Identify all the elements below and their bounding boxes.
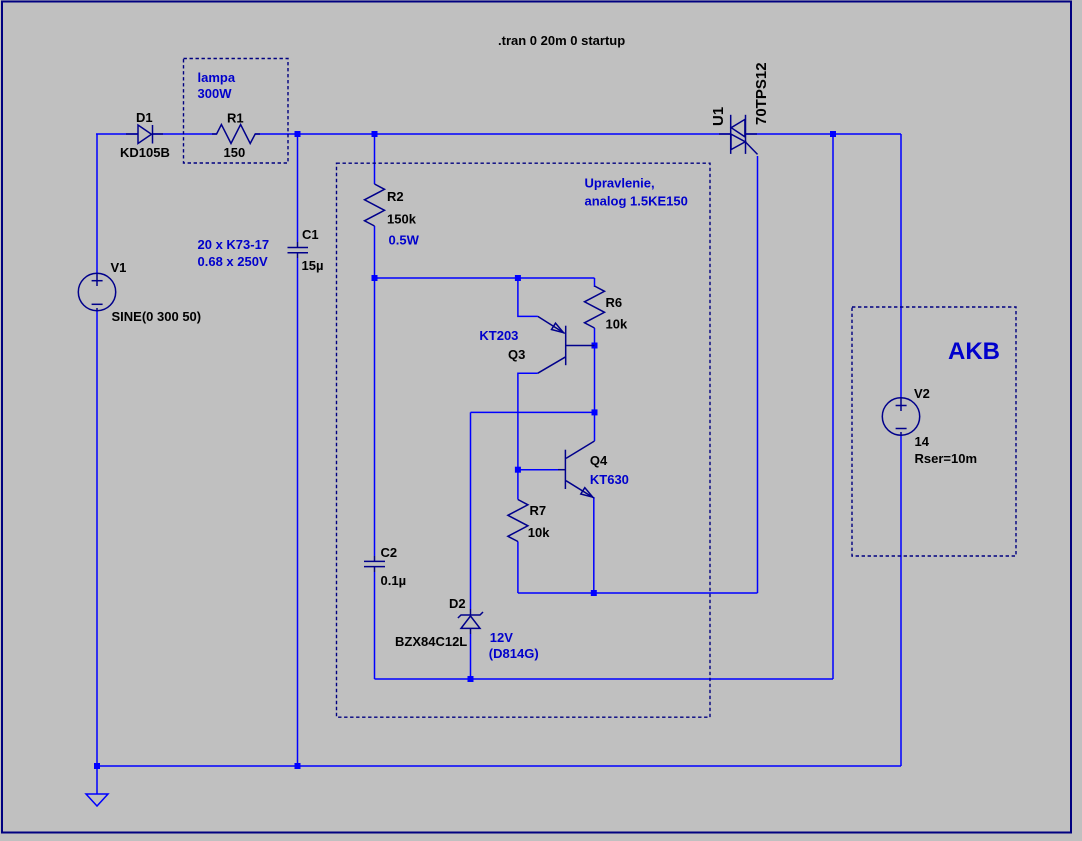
voltage source V2 [882, 398, 919, 436]
resistor R2 [365, 184, 385, 226]
wire D2 top lead [470, 412, 472, 609]
wire R6 top lead [594, 278, 596, 287]
wire top rail R1 to U1 [255, 133, 731, 135]
junction Q3 emitter node [515, 275, 521, 281]
annotation box lampa [184, 59, 289, 164]
wire Q4 base feed [518, 469, 558, 471]
svg-text:Rser=10m: Rser=10m [915, 451, 978, 466]
svg-text:V1: V1 [111, 260, 127, 275]
svg-text:Upravlenie,: Upravlenie, [585, 176, 655, 191]
wire ground stub [96, 766, 98, 794]
wire R7 top lead [517, 470, 519, 500]
wire R7 bottom lead [517, 542, 519, 594]
svg-text:U1: U1 [710, 107, 727, 126]
svg-text:R2: R2 [387, 189, 404, 204]
thyristor U1 [719, 115, 758, 155]
capacitor C1 [288, 242, 309, 258]
svg-text:D1: D1 [136, 110, 153, 125]
wire x833 drop to return rail [832, 134, 834, 679]
svg-text:14: 14 [915, 434, 930, 449]
wire Q3 emitter feed [518, 278, 538, 316]
voltage source V1 [78, 273, 115, 311]
svg-text:V2: V2 [914, 386, 930, 401]
wire node rail y412 [471, 411, 595, 413]
svg-text:150: 150 [224, 145, 246, 160]
junction R2 bottom node [372, 275, 378, 281]
svg-text:R7: R7 [530, 503, 547, 518]
junction x833 top [830, 131, 836, 137]
svg-text:10k: 10k [528, 525, 550, 540]
wire V2 top lead [900, 134, 902, 398]
wire D2 bottom lead [470, 634, 472, 679]
wire R2 to C2 [374, 278, 376, 556]
wire V2 bottom lead [900, 435, 902, 766]
resistor R1 [212, 125, 260, 144]
svg-text:KT203: KT203 [479, 328, 518, 343]
wire top rail D1 to R1 [153, 133, 218, 135]
svg-text:KD105B: KD105B [120, 145, 170, 160]
svg-text:Q4: Q4 [590, 453, 608, 468]
junction D2 bottom node [468, 676, 474, 682]
resistor R6 [585, 286, 605, 328]
svg-text:BZX84C12L: BZX84C12L [395, 634, 467, 649]
junction Q4 emitter / gate rail [591, 590, 597, 596]
svg-text:0.1µ: 0.1µ [381, 573, 407, 588]
junction Q4 base / R7 node [515, 467, 521, 473]
svg-text:R6: R6 [606, 295, 623, 310]
svg-text:SINE(0 300 50): SINE(0 300 50) [112, 309, 202, 324]
wire R6 bottom to node [594, 328, 596, 412]
junction ground node [94, 763, 100, 769]
svg-text:(D814G): (D814G) [489, 646, 539, 661]
wire C2 bottom [374, 572, 376, 679]
transistor Q3 [538, 316, 595, 373]
zener diode D2 [458, 609, 483, 634]
svg-text:Q3: Q3 [508, 347, 525, 362]
svg-text:300W: 300W [198, 86, 233, 101]
wire C1 top [297, 134, 299, 242]
wire gate rail y593 [518, 592, 758, 594]
junction Q4 collector node [592, 409, 598, 415]
transistor Q4 [558, 441, 595, 498]
junction C1 bottom [295, 763, 301, 769]
junction C1 top [295, 131, 301, 137]
svg-text:15µ: 15µ [302, 258, 324, 273]
svg-text:12V: 12V [490, 630, 513, 645]
svg-text:10k: 10k [606, 317, 628, 332]
wire R2 bottom lead [374, 226, 376, 278]
svg-text:.tran 0 20m 0 startup: .tran 0 20m 0 startup [498, 33, 625, 48]
svg-text:D2: D2 [449, 596, 466, 611]
wire bottom ground rail [96, 765, 901, 767]
wire R2 top lead [374, 134, 376, 184]
svg-text:AKB: AKB [948, 338, 1000, 365]
resistor R7 [508, 500, 528, 542]
svg-text:0.68 x 250V: 0.68 x 250V [198, 254, 268, 269]
svg-text:0.5W: 0.5W [389, 233, 420, 248]
svg-text:70TPS12: 70TPS12 [753, 62, 770, 125]
capacitor C2 [364, 556, 385, 572]
wire top rail V1 to D1 [96, 133, 138, 135]
wire V1 bottom lead [96, 310, 98, 766]
svg-text:analog 1.5KE150: analog 1.5KE150 [585, 194, 688, 209]
wire U1 gate drop [757, 156, 759, 593]
junction R2 top [372, 131, 378, 137]
wire Q4 emitter drop [593, 497, 595, 593]
svg-text:150k: 150k [387, 212, 417, 227]
junction Q3 base / R6 node [592, 343, 598, 349]
svg-text:KT630: KT630 [590, 472, 629, 487]
wire C1 bottom [297, 258, 299, 766]
wire return rail y679 [375, 678, 834, 680]
diode D1 [126, 125, 163, 144]
annotation box AKB [852, 307, 1016, 556]
svg-text:20 x K73-17: 20 x K73-17 [198, 237, 270, 252]
svg-text:lampa: lampa [198, 70, 236, 85]
svg-text:R1: R1 [227, 111, 244, 126]
wire Q3 collector drop [518, 373, 538, 470]
ground symbol [86, 794, 108, 806]
svg-text:C2: C2 [381, 545, 398, 560]
wire Q4 collector feed [594, 412, 596, 441]
wire node rail y278 [375, 277, 595, 279]
svg-text:C1: C1 [302, 227, 319, 242]
wire top rail U1 to V2 column [745, 133, 901, 135]
annotation box Upravlenie [337, 163, 711, 717]
wire V1 top lead [96, 134, 98, 274]
